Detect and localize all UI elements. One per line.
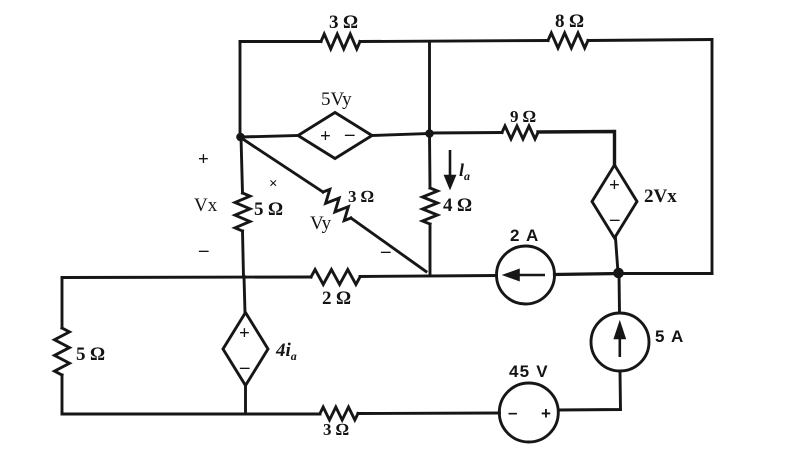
svg-text:×: ×: [269, 176, 278, 192]
wire top middle segment: [360, 41, 548, 42]
svg-text:–: –: [508, 403, 519, 422]
svg-text:la: la: [459, 160, 470, 183]
wire 9ohm left lead: [430, 131, 503, 134]
wire 4ia top lead: [244, 277, 245, 313]
svg-text:–: –: [344, 124, 355, 145]
wire 5Vy right to node B: [372, 134, 430, 136]
wire left vertical upper lead: [61, 278, 64, 329]
wire node C to right vertical: [619, 272, 713, 275]
wire right vertical: [711, 40, 714, 274]
node A dot: [236, 133, 245, 142]
voltage source 45V circle: [499, 383, 558, 442]
svg-text:+: +: [198, 149, 209, 170]
svg-text:3 Ω: 3 Ω: [329, 12, 358, 33]
dependent source 4ia diamond: [223, 313, 268, 386]
wire bottom left segment: [62, 413, 320, 416]
wire 4ohm top lead: [428, 134, 431, 189]
svg-text:5 Ω: 5 Ω: [254, 199, 283, 220]
wire node A to 5Vy left: [241, 136, 299, 138]
resistor R 8ohm top: [548, 33, 588, 48]
wire top left segment: [240, 40, 321, 43]
svg-text:2 A: 2 A: [510, 226, 539, 245]
svg-text:3 Ω: 3 Ω: [323, 420, 349, 439]
wire 45V left to 3ohm: [358, 412, 500, 415]
wire 9ohm right lead: [538, 132, 615, 167]
resistor R 5ohm left zigzag: [55, 328, 70, 375]
wire top-left vertical: [239, 42, 242, 138]
arrow inside 2A source: [506, 270, 546, 279]
arrow inside 5A source: [615, 324, 624, 357]
svg-text:2Vx: 2Vx: [644, 186, 677, 207]
svg-text:–: –: [380, 241, 391, 262]
svg-text:+: +: [541, 404, 552, 423]
node B dot: [425, 129, 434, 138]
resistor R 3ohm diagonal Vy: upper lead: [242, 139, 323, 193]
resistor R 3ohm diagonal zigzag: [323, 189, 351, 220]
svg-text:+: +: [320, 126, 331, 147]
resistor R 5ohm middle: leads: [241, 137, 243, 193]
resistor R 2ohm: [311, 270, 360, 285]
svg-text:5Vy: 5Vy: [321, 89, 352, 110]
dependent source 2Vx diamond: [592, 165, 637, 238]
node C dot: [613, 268, 624, 279]
dependent source 5Vy diamond: [298, 113, 372, 159]
svg-text:–: –: [239, 357, 250, 378]
resistor R 3ohm diagonal lower lead: [351, 218, 426, 272]
wire 2Vx bottom to node C: [616, 238, 619, 273]
arrow current ia: [446, 150, 455, 187]
resistor R 4ohm zigzag: [423, 188, 438, 224]
svg-text:4ia: 4ia: [275, 340, 297, 363]
resistor R 9ohm: [502, 126, 538, 139]
svg-text:4 Ω: 4 Ω: [443, 195, 472, 216]
current source 5A circle: [591, 313, 649, 371]
resistor R 3ohm bottom: [320, 407, 358, 420]
svg-text:–: –: [609, 209, 620, 230]
wire node C down to 5A: [618, 273, 621, 313]
svg-text:5 A: 5 A: [655, 327, 684, 346]
svg-text:Vx: Vx: [194, 195, 218, 216]
wire 5ohm bottom lead: [243, 231, 244, 277]
svg-text:45 V: 45 V: [509, 362, 549, 381]
wire top right segment: [588, 40, 712, 41]
wire mid horizontal to 2A: [360, 276, 497, 277]
svg-text:+: +: [609, 175, 620, 196]
current source 2A circle: [497, 246, 555, 304]
svg-text:9 Ω: 9 Ω: [510, 107, 536, 126]
wire 4ohm bottom lead: [429, 224, 432, 276]
svg-text:–: –: [198, 240, 209, 261]
svg-text:+: +: [239, 323, 250, 344]
svg-text:2 Ω: 2 Ω: [322, 288, 351, 309]
wire left vertical lower lead: [61, 375, 64, 414]
wire vertical node B up to top: [428, 42, 431, 134]
svg-text:8 Ω: 8 Ω: [555, 11, 584, 32]
svg-text:Vy: Vy: [310, 213, 332, 234]
wire 5A bottom lead: [559, 371, 621, 410]
wire 4ia bottom lead: [244, 386, 247, 415]
svg-text:5 Ω: 5 Ω: [76, 344, 105, 365]
svg-text:3 Ω: 3 Ω: [348, 187, 374, 206]
resistor R 3ohm top: [321, 34, 360, 49]
wire mid horizontal left: [62, 276, 311, 279]
wire 2A to node C: [555, 274, 619, 275]
resistor R 5ohm middle zigzag: [235, 193, 250, 231]
